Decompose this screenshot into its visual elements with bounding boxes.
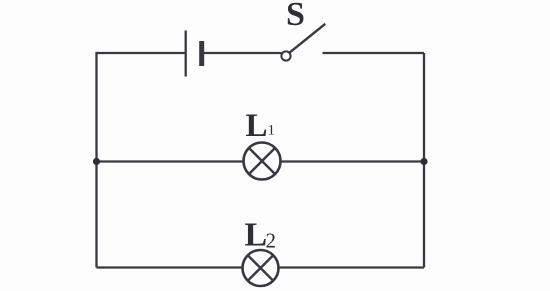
wire top-left (left rail top to battery) xyxy=(97,53,185,162)
lamp L2 xyxy=(243,250,279,286)
svg-text:1: 1 xyxy=(268,123,276,139)
svg-text:S: S xyxy=(286,0,305,33)
node right junction xyxy=(420,158,427,165)
wire middle-right (L1 to right junction) xyxy=(281,160,425,162)
wire bottom-right (L2 to right rail) xyxy=(279,266,425,268)
lamp L1 xyxy=(244,143,281,180)
wire battery to switch xyxy=(204,52,282,54)
switch S xyxy=(281,24,325,61)
wire left rail (junction to bottom) xyxy=(95,162,97,268)
svg-text:L: L xyxy=(246,108,268,144)
svg-text:L: L xyxy=(245,217,268,254)
node left junction xyxy=(93,158,100,165)
wire right rail xyxy=(423,53,425,268)
svg-text:2: 2 xyxy=(266,229,277,253)
wire middle-left (junction to L1) xyxy=(97,160,244,162)
wire switch to right rail xyxy=(323,52,425,54)
battery (cell) xyxy=(186,31,205,77)
wire bottom-left (to L2) xyxy=(97,266,243,268)
